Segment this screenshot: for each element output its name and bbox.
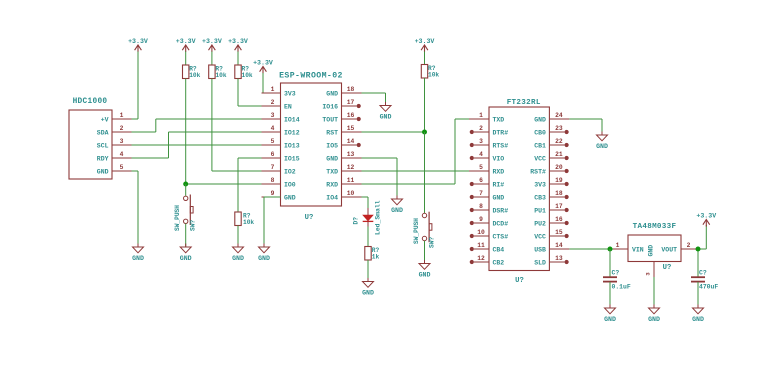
ground GND (FT pin 24) bbox=[596, 132, 608, 150]
IC U? HDC1000 humidity sensor bbox=[69, 98, 132, 179]
svg-text:GND: GND bbox=[419, 271, 431, 278]
wire LED to R6 bbox=[367, 227, 369, 247]
ground GND (HDC1000) bbox=[132, 244, 144, 262]
wire regulator GND pin3 to ground bbox=[653, 277, 655, 308]
resistor R? 10k (pull-up on IO2) bbox=[209, 65, 227, 79]
svg-text:6: 6 bbox=[271, 151, 275, 158]
wire FT GND pin24 to ground bbox=[569, 119, 602, 135]
svg-text:17: 17 bbox=[347, 99, 355, 106]
svg-text:IO15: IO15 bbox=[284, 155, 300, 162]
svg-text:20: 20 bbox=[555, 164, 563, 171]
svg-text:2: 2 bbox=[479, 125, 483, 132]
svg-text:5: 5 bbox=[479, 164, 483, 171]
svg-text:GND: GND bbox=[180, 255, 192, 262]
svg-text:10: 10 bbox=[347, 190, 355, 197]
svg-text:TXD: TXD bbox=[326, 168, 338, 175]
wire ESP RST to junction bbox=[362, 131, 425, 133]
svg-text:DSR#: DSR# bbox=[493, 207, 509, 214]
svg-text:IO16: IO16 bbox=[322, 103, 338, 110]
wire R6 to ground bbox=[367, 260, 369, 282]
svg-text:GND: GND bbox=[232, 255, 244, 262]
ground GND (SW2) bbox=[419, 260, 431, 278]
svg-text:Led_Small: Led_Small bbox=[375, 200, 382, 235]
svg-text:PU2: PU2 bbox=[534, 220, 546, 227]
svg-text:USB: USB bbox=[534, 246, 546, 253]
svg-text:TOUT: TOUT bbox=[322, 116, 338, 123]
svg-text:IO13: IO13 bbox=[284, 142, 300, 149]
svg-text:TXD: TXD bbox=[493, 116, 505, 123]
svg-text:U?: U? bbox=[305, 214, 314, 222]
svg-text:GND: GND bbox=[362, 289, 374, 296]
power +3.3V net (pull-up R2) bbox=[202, 38, 222, 52]
svg-text:10k: 10k bbox=[243, 219, 254, 226]
capacitor C? 0.1uF bbox=[603, 270, 631, 291]
svg-text:0.1uF: 0.1uF bbox=[612, 284, 631, 291]
svg-text:1: 1 bbox=[120, 112, 124, 119]
svg-text:GND: GND bbox=[326, 155, 338, 162]
power +3.3V net (pull-up R3) bbox=[228, 38, 248, 52]
svg-text:SW_PUSH: SW_PUSH bbox=[413, 218, 420, 244]
power +3.3V net (ESP 3V3) bbox=[253, 60, 273, 74]
svg-text:IO12: IO12 bbox=[284, 129, 300, 136]
svg-text:10k: 10k bbox=[242, 72, 253, 79]
wire ESP IO0 to junction bbox=[186, 183, 262, 185]
wire +3.3V to HDC1000 +V bbox=[132, 52, 139, 120]
svg-text:PU1: PU1 bbox=[534, 207, 546, 214]
wire R5 to ground bbox=[237, 226, 239, 248]
svg-text:GND: GND bbox=[596, 143, 608, 150]
svg-text:DCD#: DCD# bbox=[493, 220, 509, 227]
svg-text:2: 2 bbox=[271, 99, 275, 106]
wire ESP IO15 to R5 bbox=[238, 158, 262, 212]
ground GND (C1) bbox=[604, 305, 616, 323]
svg-text:10: 10 bbox=[477, 229, 485, 236]
svg-text:10k: 10k bbox=[189, 72, 200, 79]
ground GND (ESP pin 18) bbox=[380, 102, 392, 120]
svg-text:SLD: SLD bbox=[534, 259, 546, 266]
wire C2 to ground bbox=[697, 282, 699, 308]
svg-text:5: 5 bbox=[271, 138, 275, 145]
svg-text:18: 18 bbox=[555, 190, 563, 197]
svg-text:GND: GND bbox=[284, 194, 296, 201]
svg-text:7: 7 bbox=[479, 190, 483, 197]
wire ESP RXD to FT232RL TXD bbox=[362, 119, 470, 184]
power +3.3V net (pull-up R1) bbox=[176, 38, 196, 52]
svg-text:VOUT: VOUT bbox=[661, 247, 677, 254]
svg-text:GND: GND bbox=[692, 316, 704, 323]
svg-text:GND: GND bbox=[391, 207, 403, 214]
svg-text:15: 15 bbox=[347, 125, 355, 132]
resistor R? 10k (pull-up on RST) bbox=[421, 65, 439, 79]
wire HDC GND to ground bbox=[132, 171, 139, 247]
svg-text:4: 4 bbox=[479, 151, 483, 158]
svg-text:24: 24 bbox=[555, 112, 563, 119]
svg-text:SW?: SW? bbox=[190, 220, 197, 231]
svg-text:7: 7 bbox=[271, 164, 275, 171]
svg-text:12: 12 bbox=[347, 164, 355, 171]
svg-text:2: 2 bbox=[687, 242, 691, 249]
capacitor C? 470uF bbox=[691, 270, 718, 291]
svg-text:GND: GND bbox=[326, 90, 338, 97]
ground GND (SW1) bbox=[180, 244, 192, 262]
wire FT USB pin14 to regulator VIN bbox=[569, 248, 613, 250]
svg-text:13: 13 bbox=[347, 151, 355, 158]
svg-text:3V3: 3V3 bbox=[534, 181, 546, 188]
svg-text:12: 12 bbox=[477, 255, 485, 262]
svg-text:VIN: VIN bbox=[632, 247, 644, 254]
svg-text:SDA: SDA bbox=[97, 129, 109, 136]
wire +3.3V to R4 bbox=[424, 52, 426, 65]
ground GND (C2) bbox=[692, 305, 704, 323]
svg-text:10k: 10k bbox=[215, 72, 226, 79]
svg-text:IO14: IO14 bbox=[284, 116, 300, 123]
svg-text:8: 8 bbox=[271, 177, 275, 184]
pushbutton SW? SW_PUSH (IO0) bbox=[174, 184, 196, 247]
wire ESP GND pin13 to ground bbox=[362, 158, 398, 199]
svg-text:EN: EN bbox=[284, 103, 292, 110]
svg-text:14: 14 bbox=[347, 138, 355, 145]
svg-text:16: 16 bbox=[347, 112, 355, 119]
svg-text:1: 1 bbox=[616, 242, 620, 249]
ground GND (ESP pin 9) bbox=[258, 244, 270, 262]
svg-text:1k: 1k bbox=[372, 254, 380, 261]
svg-text:2: 2 bbox=[120, 125, 124, 132]
wire VOUT to +3.3V and C2 bbox=[697, 225, 707, 277]
svg-text:14: 14 bbox=[555, 242, 563, 249]
resistor R? 10k (pull-up on EN) bbox=[235, 65, 253, 79]
svg-text:GND: GND bbox=[132, 255, 144, 262]
ground GND (ESP pin 13) bbox=[391, 196, 403, 214]
svg-text:GND: GND bbox=[648, 245, 655, 257]
svg-text:GND: GND bbox=[258, 255, 270, 262]
ground GND (R5) bbox=[232, 244, 244, 262]
junction IO0 node bbox=[183, 182, 188, 187]
svg-text:SCL: SCL bbox=[97, 142, 109, 149]
svg-text:VCC: VCC bbox=[534, 155, 546, 162]
svg-text:21: 21 bbox=[555, 151, 563, 158]
svg-text:IO4: IO4 bbox=[326, 194, 338, 201]
svg-text:GND: GND bbox=[604, 316, 616, 323]
svg-text:16: 16 bbox=[555, 216, 563, 223]
svg-text:3V3: 3V3 bbox=[284, 90, 296, 97]
svg-text:IO0: IO0 bbox=[284, 181, 296, 188]
svg-text:11: 11 bbox=[477, 242, 485, 249]
svg-text:8: 8 bbox=[479, 203, 483, 210]
svg-text:15: 15 bbox=[555, 229, 563, 236]
svg-text:ESP-WROOM-02: ESP-WROOM-02 bbox=[279, 72, 343, 81]
svg-text:VIO: VIO bbox=[493, 155, 505, 162]
svg-text:SW_PUSH: SW_PUSH bbox=[174, 205, 181, 231]
svg-text:GND: GND bbox=[380, 113, 392, 120]
resistor R? 10k (IO15 pull-down) bbox=[235, 212, 255, 226]
svg-text:C?: C? bbox=[612, 270, 620, 277]
svg-text:+V: +V bbox=[101, 116, 109, 123]
wire +3.3V to ESP 3V3 bbox=[262, 73, 264, 93]
svg-text:CB0: CB0 bbox=[534, 129, 546, 136]
junction VIN node bbox=[608, 247, 613, 252]
wire ESP IO4 to LED bbox=[362, 197, 369, 208]
svg-text:3: 3 bbox=[479, 138, 483, 145]
svg-text:11: 11 bbox=[347, 177, 355, 184]
svg-text:RST#: RST# bbox=[530, 168, 546, 175]
svg-text:GND: GND bbox=[648, 316, 660, 323]
svg-text:DTR#: DTR# bbox=[493, 129, 509, 136]
svg-text:U?: U? bbox=[663, 264, 672, 272]
ground GND (regulator) bbox=[648, 305, 660, 323]
svg-text:IO2: IO2 bbox=[284, 168, 296, 175]
wire C1 to ground bbox=[609, 282, 611, 308]
wire junction to C1 bbox=[609, 249, 611, 277]
svg-text:TA48M033F: TA48M033F bbox=[633, 223, 677, 231]
wire R4 to RST junction bbox=[424, 78, 426, 132]
junction RST node bbox=[422, 130, 427, 135]
svg-text:RI#: RI# bbox=[493, 181, 505, 188]
wire SDA to ESP IO14 bbox=[132, 119, 262, 132]
IC U? ESP-WROOM-02 module bbox=[262, 72, 362, 223]
wire R1 to IO0 junction bbox=[185, 79, 187, 185]
svg-text:10k: 10k bbox=[428, 72, 439, 79]
wire ESP TXD to FT232RL RXD bbox=[362, 170, 470, 172]
svg-text:1: 1 bbox=[271, 86, 275, 93]
svg-text:23: 23 bbox=[555, 125, 563, 132]
svg-text:13: 13 bbox=[555, 255, 563, 262]
svg-text:D?: D? bbox=[353, 217, 360, 225]
svg-text:RXD: RXD bbox=[493, 168, 505, 175]
svg-text:470uF: 470uF bbox=[699, 284, 718, 291]
junction VOUT node bbox=[696, 247, 701, 252]
svg-text:RDY: RDY bbox=[97, 155, 109, 162]
svg-text:1: 1 bbox=[479, 112, 483, 119]
power +3.3V net (HDC1000) bbox=[128, 38, 148, 52]
svg-text:5: 5 bbox=[120, 164, 124, 171]
svg-text:SW?: SW? bbox=[428, 237, 435, 248]
IC U? FT232RL USB-UART bbox=[469, 99, 569, 285]
LED D? Led_Small bbox=[353, 200, 382, 235]
svg-text:RTS#: RTS# bbox=[493, 142, 509, 149]
svg-text:CTS#: CTS# bbox=[493, 233, 509, 240]
wire SCL to ESP IO13 bbox=[132, 144, 262, 146]
svg-text:CB1: CB1 bbox=[534, 142, 546, 149]
resistor R? 1k (LED series) bbox=[365, 247, 380, 261]
svg-text:IO5: IO5 bbox=[326, 142, 338, 149]
svg-text:CB2: CB2 bbox=[493, 259, 505, 266]
svg-text:HDC1000: HDC1000 bbox=[73, 98, 108, 106]
svg-text:CB3: CB3 bbox=[534, 194, 546, 201]
svg-text:3: 3 bbox=[645, 272, 652, 276]
pushbutton SW? SW_PUSH (RST) bbox=[413, 132, 435, 264]
wire +3.3V to R2 bbox=[211, 52, 213, 66]
svg-text:17: 17 bbox=[555, 203, 563, 210]
power +3.3V net (RST pull-up R4) bbox=[415, 38, 435, 52]
svg-text:FT232RL: FT232RL bbox=[507, 99, 541, 107]
svg-text:6: 6 bbox=[479, 177, 483, 184]
svg-text:CB4: CB4 bbox=[493, 246, 505, 253]
svg-text:GND: GND bbox=[97, 168, 109, 175]
svg-text:9: 9 bbox=[479, 216, 483, 223]
wire RDY to ESP IO12 bbox=[132, 132, 262, 158]
wire ESP GND pin9 to ground bbox=[264, 197, 281, 247]
svg-text:4: 4 bbox=[271, 125, 275, 132]
svg-text:3: 3 bbox=[120, 138, 124, 145]
wire R3 to EN bbox=[238, 79, 262, 107]
svg-text:9: 9 bbox=[271, 190, 275, 197]
svg-text:RST: RST bbox=[326, 129, 338, 136]
wire +3.3V to R3 bbox=[237, 52, 239, 66]
svg-text:GND: GND bbox=[534, 116, 546, 123]
resistor R? 10k (pull-up on IO0) bbox=[183, 65, 201, 79]
wire R2 to IO2 bbox=[212, 79, 262, 172]
svg-text:C?: C? bbox=[699, 270, 707, 277]
wire ESP GND pin18 to ground bbox=[362, 93, 386, 106]
ground GND (LED) bbox=[362, 278, 374, 296]
svg-text:18: 18 bbox=[347, 86, 355, 93]
wire +3.3V to R1 bbox=[185, 52, 187, 66]
svg-text:U?: U? bbox=[515, 277, 524, 285]
svg-text:4: 4 bbox=[120, 151, 124, 158]
svg-text:19: 19 bbox=[555, 177, 563, 184]
svg-text:22: 22 bbox=[555, 138, 563, 145]
svg-text:VCC: VCC bbox=[534, 233, 546, 240]
svg-text:3: 3 bbox=[271, 112, 275, 119]
svg-text:RXD: RXD bbox=[326, 181, 338, 188]
svg-text:GND: GND bbox=[493, 194, 505, 201]
power +3.3V net (regulator output) bbox=[696, 213, 716, 227]
IC U? TA48M033F 3.3V regulator bbox=[613, 223, 697, 277]
